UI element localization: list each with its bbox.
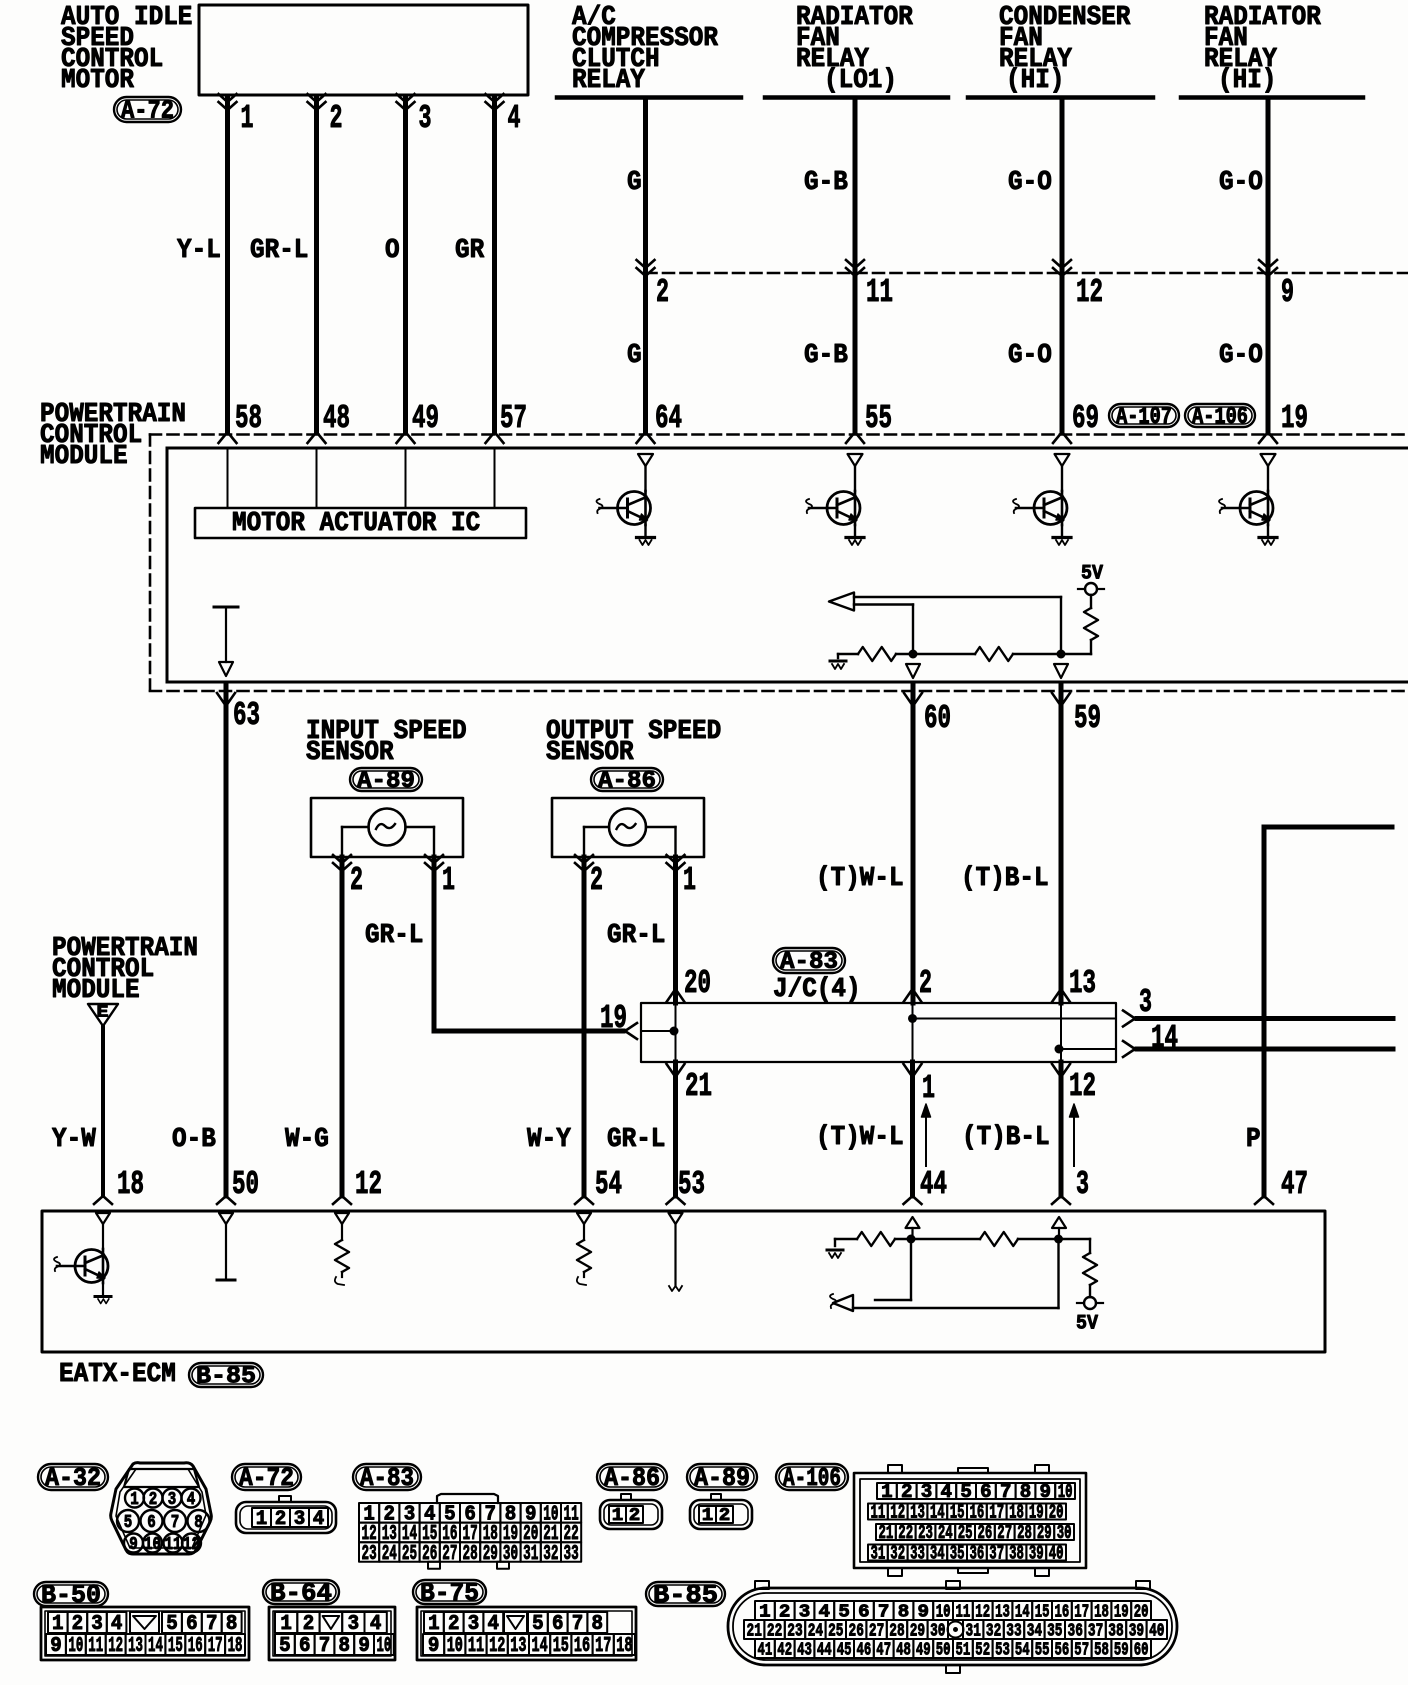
svg-text:5: 5 (960, 1481, 972, 1503)
svg-text:31: 31 (523, 1542, 538, 1566)
svg-text:14: 14 (532, 1635, 548, 1658)
svg-text:6: 6 (980, 1481, 992, 1503)
svg-text:54: 54 (1015, 1639, 1030, 1660)
svg-text:39: 39 (1029, 1543, 1044, 1565)
svg-text:1: 1 (683, 862, 696, 899)
svg-text:31: 31 (871, 1543, 886, 1565)
svg-text:11: 11 (88, 1635, 103, 1658)
svg-text:18: 18 (1009, 1502, 1024, 1524)
svg-text:12: 12 (489, 1635, 505, 1658)
svg-text:11: 11 (468, 1635, 484, 1658)
svg-text:63: 63 (233, 697, 260, 734)
svg-text:56: 56 (1055, 1639, 1070, 1660)
svg-text:3: 3 (91, 1613, 103, 1636)
svg-text:6: 6 (552, 1613, 564, 1636)
svg-text:MODULE: MODULE (40, 442, 128, 472)
svg-text:9: 9 (129, 1535, 138, 1555)
svg-text:MOTOR ACTUATOR IC: MOTOR ACTUATOR IC (232, 509, 480, 539)
svg-text:A-32: A-32 (45, 1463, 101, 1493)
svg-text:13: 13 (1069, 965, 1096, 1002)
svg-text:O-B: O-B (172, 1125, 216, 1155)
svg-text:23: 23 (918, 1522, 933, 1544)
svg-text:41: 41 (758, 1639, 773, 1660)
svg-text:1: 1 (881, 1481, 893, 1503)
svg-text:8: 8 (194, 1513, 203, 1533)
svg-text:28: 28 (463, 1542, 478, 1566)
svg-text:2: 2 (72, 1613, 84, 1636)
svg-text:5: 5 (532, 1613, 544, 1636)
svg-text:23: 23 (362, 1542, 377, 1566)
svg-text:GR: GR (455, 236, 485, 266)
svg-text:J/C(4): J/C(4) (773, 975, 861, 1005)
svg-text:2: 2 (275, 1508, 287, 1531)
svg-text:26: 26 (978, 1522, 993, 1544)
svg-text:A-86: A-86 (598, 768, 656, 795)
svg-text:50: 50 (232, 1166, 259, 1203)
svg-text:48: 48 (896, 1639, 911, 1660)
svg-text:3: 3 (1076, 1166, 1089, 1203)
svg-text:1: 1 (280, 1613, 292, 1636)
svg-text:8: 8 (339, 1635, 351, 1658)
svg-text:A-72: A-72 (239, 1463, 294, 1493)
svg-text:GR-L: GR-L (607, 1125, 665, 1155)
svg-text:(T)W-L: (T)W-L (816, 1123, 904, 1153)
svg-text:P: P (1246, 1125, 1261, 1155)
svg-text:47: 47 (876, 1639, 891, 1660)
svg-text:9: 9 (50, 1635, 62, 1658)
svg-text:12: 12 (890, 1502, 905, 1524)
svg-text:2: 2 (901, 1481, 913, 1503)
svg-text:9: 9 (358, 1635, 370, 1658)
svg-text:14: 14 (1151, 1020, 1178, 1057)
svg-text:1: 1 (130, 1490, 139, 1510)
svg-text:9: 9 (1281, 274, 1294, 311)
svg-text:57: 57 (1074, 1639, 1089, 1660)
svg-text:43: 43 (797, 1639, 812, 1660)
svg-text:16: 16 (574, 1635, 590, 1658)
svg-text:G-B: G-B (804, 168, 848, 198)
svg-text:4: 4 (941, 1481, 953, 1503)
svg-text:G-O: G-O (1219, 168, 1263, 198)
svg-text:10: 10 (377, 1635, 392, 1658)
svg-text:19: 19 (1029, 1502, 1044, 1524)
svg-text:49: 49 (916, 1639, 931, 1660)
svg-text:A-72: A-72 (121, 96, 174, 126)
svg-text:28: 28 (1017, 1522, 1032, 1544)
svg-text:7: 7 (171, 1513, 180, 1533)
svg-text:4: 4 (313, 1508, 325, 1531)
svg-text:G-O: G-O (1008, 168, 1052, 198)
svg-text:50: 50 (936, 1639, 951, 1660)
svg-text:29: 29 (483, 1542, 498, 1566)
svg-text:16: 16 (970, 1502, 985, 1524)
svg-text:SENSOR: SENSOR (306, 738, 394, 768)
svg-text:(HI): (HI) (1006, 66, 1064, 96)
svg-text:17: 17 (595, 1635, 611, 1658)
svg-text:A-89: A-89 (694, 1463, 750, 1493)
svg-text:A-107: A-107 (1116, 404, 1172, 431)
svg-text:64: 64 (655, 400, 682, 437)
svg-text:1: 1 (702, 1506, 714, 1526)
svg-text:2: 2 (656, 274, 669, 311)
svg-text:15: 15 (553, 1635, 569, 1658)
svg-text:4: 4 (488, 1613, 500, 1636)
svg-text:14: 14 (148, 1635, 163, 1658)
svg-text:10: 10 (68, 1635, 83, 1658)
svg-text:B-85: B-85 (196, 1364, 256, 1391)
svg-text:9: 9 (1040, 1481, 1052, 1503)
svg-text:3: 3 (921, 1481, 933, 1503)
svg-text:44: 44 (817, 1639, 832, 1660)
svg-text:24: 24 (938, 1522, 953, 1544)
svg-text:B-75: B-75 (420, 1578, 479, 1608)
svg-text:5: 5 (279, 1635, 291, 1658)
svg-text:45: 45 (837, 1639, 852, 1660)
svg-text:54: 54 (595, 1166, 622, 1203)
svg-text:GR-L: GR-L (365, 921, 423, 951)
svg-text:47: 47 (1281, 1166, 1308, 1203)
svg-text:29: 29 (1037, 1522, 1052, 1544)
svg-text:16: 16 (188, 1635, 203, 1658)
svg-text:46: 46 (857, 1639, 872, 1660)
svg-text:5V: 5V (1076, 1313, 1098, 1336)
svg-text:7: 7 (572, 1613, 584, 1636)
svg-text:53: 53 (995, 1639, 1010, 1660)
svg-text:B-64: B-64 (270, 1578, 332, 1608)
svg-text:10: 10 (447, 1635, 463, 1658)
svg-text:13: 13 (128, 1635, 143, 1658)
svg-text:59: 59 (1074, 700, 1101, 737)
svg-text:48: 48 (323, 400, 350, 437)
svg-text:G-O: G-O (1219, 341, 1263, 371)
svg-text:37: 37 (989, 1543, 1004, 1565)
svg-text:A-83: A-83 (780, 949, 838, 976)
svg-text:58: 58 (1094, 1639, 1109, 1660)
svg-text:4: 4 (370, 1613, 382, 1636)
svg-text:21: 21 (879, 1522, 894, 1544)
svg-text:12: 12 (1076, 274, 1103, 311)
svg-text:5: 5 (124, 1513, 133, 1533)
svg-text:G: G (627, 168, 642, 198)
svg-text:30: 30 (1057, 1522, 1072, 1544)
svg-text:17: 17 (208, 1635, 223, 1658)
svg-text:12: 12 (108, 1635, 123, 1658)
svg-text:G: G (627, 341, 642, 371)
svg-text:4: 4 (187, 1490, 196, 1510)
svg-text:51: 51 (956, 1639, 971, 1660)
svg-text:(HI): (HI) (1218, 66, 1276, 96)
svg-text:2: 2 (303, 1613, 315, 1636)
svg-text:3: 3 (168, 1490, 177, 1510)
svg-text:11: 11 (165, 1535, 182, 1555)
svg-text:53: 53 (678, 1166, 705, 1203)
svg-text:8: 8 (226, 1613, 238, 1636)
svg-text:3: 3 (348, 1613, 360, 1636)
svg-text:44: 44 (920, 1166, 947, 1203)
svg-text:1: 1 (612, 1506, 624, 1526)
svg-text:6: 6 (186, 1613, 198, 1636)
svg-text:1: 1 (922, 1070, 935, 1107)
svg-text:55: 55 (1035, 1639, 1050, 1660)
svg-text:21: 21 (685, 1068, 712, 1105)
svg-text:22: 22 (898, 1522, 913, 1544)
svg-text:3: 3 (468, 1613, 480, 1636)
svg-text:RELAY: RELAY (572, 66, 646, 96)
svg-text:19: 19 (600, 1000, 627, 1037)
svg-text:EATX-ECM: EATX-ECM (59, 1360, 176, 1390)
svg-text:A-86: A-86 (604, 1463, 660, 1493)
svg-text:32: 32 (543, 1542, 558, 1566)
svg-text:SENSOR: SENSOR (546, 738, 634, 768)
svg-text:12: 12 (183, 1535, 200, 1555)
svg-text:2: 2 (448, 1613, 460, 1636)
svg-text:MODULE: MODULE (52, 976, 140, 1006)
svg-text:A-106: A-106 (783, 1463, 841, 1493)
svg-text:(T)B-L: (T)B-L (961, 864, 1049, 894)
svg-text:10: 10 (144, 1535, 161, 1555)
svg-text:52: 52 (975, 1639, 990, 1660)
svg-text:A-83: A-83 (360, 1463, 414, 1493)
svg-text:20: 20 (684, 965, 711, 1002)
svg-text:33: 33 (910, 1543, 925, 1565)
svg-text:4: 4 (508, 100, 521, 137)
svg-text:36: 36 (970, 1543, 985, 1565)
svg-text:4: 4 (111, 1613, 123, 1636)
svg-text:G-B: G-B (804, 341, 848, 371)
svg-text:13: 13 (910, 1502, 925, 1524)
svg-text:57: 57 (500, 400, 527, 437)
svg-text:6: 6 (147, 1513, 156, 1533)
svg-text:18: 18 (616, 1635, 632, 1658)
svg-text:2: 2 (330, 100, 343, 137)
svg-text:59: 59 (1114, 1639, 1129, 1660)
svg-text:2: 2 (629, 1506, 641, 1526)
svg-text:60: 60 (1134, 1639, 1149, 1660)
svg-text:6: 6 (299, 1635, 311, 1658)
svg-text:13: 13 (510, 1635, 526, 1658)
svg-text:38: 38 (1009, 1543, 1024, 1565)
svg-text:58: 58 (235, 400, 262, 437)
svg-text:15: 15 (950, 1502, 965, 1524)
svg-text:5: 5 (166, 1613, 178, 1636)
svg-text:9: 9 (428, 1635, 440, 1658)
svg-text:25: 25 (402, 1542, 417, 1566)
svg-text:A-89: A-89 (357, 768, 415, 795)
svg-text:3: 3 (419, 100, 432, 137)
svg-text:1: 1 (256, 1508, 268, 1531)
svg-text:B-85: B-85 (653, 1580, 718, 1610)
svg-text:32: 32 (890, 1543, 905, 1565)
svg-text:7: 7 (1000, 1481, 1012, 1503)
svg-text:12: 12 (355, 1166, 382, 1203)
svg-text:10: 10 (1058, 1481, 1073, 1503)
svg-text:(T)B-L: (T)B-L (962, 1123, 1050, 1153)
svg-text:A-106: A-106 (1192, 404, 1248, 431)
svg-text:19: 19 (1281, 400, 1308, 437)
svg-text:49: 49 (412, 400, 439, 437)
svg-text:O: O (385, 236, 400, 266)
svg-text:(T)W-L: (T)W-L (816, 864, 904, 894)
svg-text:20: 20 (1049, 1502, 1064, 1524)
svg-text:27: 27 (997, 1522, 1012, 1544)
svg-text:2: 2 (149, 1490, 158, 1510)
svg-text:3: 3 (1139, 984, 1152, 1021)
svg-text:25: 25 (958, 1522, 973, 1544)
svg-text:69: 69 (1072, 400, 1099, 437)
svg-text:55: 55 (865, 400, 892, 437)
svg-text:34: 34 (930, 1543, 945, 1565)
svg-text:14: 14 (930, 1502, 945, 1524)
svg-text:W-G: W-G (285, 1125, 329, 1155)
svg-text:G-O: G-O (1008, 341, 1052, 371)
svg-text:12: 12 (1069, 1068, 1096, 1105)
svg-text:15: 15 (168, 1635, 183, 1658)
svg-text:GR-L: GR-L (607, 921, 665, 951)
svg-text:40: 40 (1049, 1543, 1064, 1565)
svg-text:E: E (97, 1004, 109, 1023)
svg-text:60: 60 (924, 700, 951, 737)
svg-text:17: 17 (989, 1502, 1004, 1524)
svg-text:3: 3 (294, 1508, 306, 1531)
svg-text:2: 2 (590, 862, 603, 899)
svg-text:8: 8 (1020, 1481, 1032, 1503)
svg-text:2: 2 (919, 965, 932, 1002)
svg-text:1: 1 (442, 862, 455, 899)
svg-text:27: 27 (442, 1542, 457, 1566)
svg-text:7: 7 (319, 1635, 331, 1658)
svg-text:1: 1 (241, 100, 254, 137)
svg-text:24: 24 (382, 1542, 397, 1566)
svg-text:Y-L: Y-L (177, 236, 221, 266)
svg-text:5V: 5V (1081, 563, 1103, 586)
svg-text:W-Y: W-Y (527, 1125, 572, 1155)
svg-text:2: 2 (719, 1506, 731, 1526)
svg-text:18: 18 (117, 1166, 144, 1203)
svg-text:1: 1 (52, 1613, 64, 1636)
svg-text:11: 11 (871, 1502, 886, 1524)
svg-text:Y-W: Y-W (52, 1125, 97, 1155)
svg-text:11: 11 (866, 274, 893, 311)
svg-text:1: 1 (428, 1613, 440, 1636)
svg-text:35: 35 (950, 1543, 965, 1565)
svg-text:(LO1): (LO1) (824, 66, 897, 96)
svg-text:42: 42 (777, 1639, 792, 1660)
svg-text:GR-L: GR-L (250, 236, 308, 266)
svg-text:2: 2 (350, 862, 363, 899)
svg-text:MOTOR: MOTOR (61, 66, 135, 96)
svg-text:8: 8 (592, 1613, 604, 1636)
svg-text:33: 33 (564, 1542, 579, 1566)
svg-text:18: 18 (228, 1635, 243, 1658)
svg-text:7: 7 (206, 1613, 218, 1636)
